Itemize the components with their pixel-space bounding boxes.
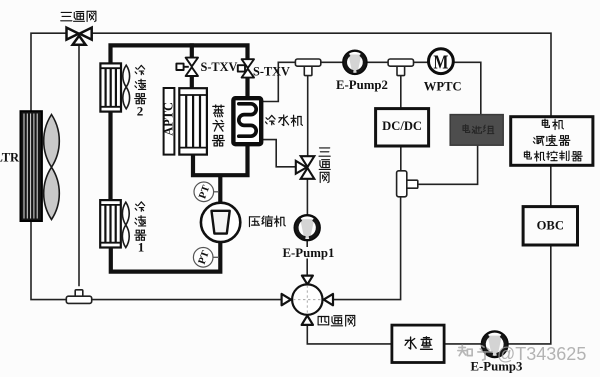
label motor box line3 [524,151,582,161]
wire OBC top to motor box bottom [550,165,552,206]
label evaporator [213,105,225,146]
wire four-way valve bottom to water tank [307,325,392,344]
label compressor [249,216,285,227]
evaporator core [179,88,207,154]
label condenser 1 [135,202,146,255]
wire chiller bottom port to three-way valve V2 left port [261,140,296,167]
label condenser 2 [135,65,146,118]
thick line S-TXV1 bottom to evaporator top [190,76,194,89]
svg-text:DC/DC: DC/DC [382,119,422,133]
svg-text:APTC: APTC [161,102,175,136]
stub PT1 to line [214,191,219,193]
wire chiller top port to E-Pump2 / WPTC line and down to battery top [261,62,481,115]
chiller heat exchanger box [233,98,261,144]
thick line S-TXV2 bottom to chiller top [245,77,249,98]
expansion valve S-TXV 1 [176,58,198,76]
label three-way valve V2 (vertical) [319,148,330,183]
fan of condenser 1 [122,202,129,247]
svg-text:1: 1 [138,240,145,255]
sensor PT 2 [193,247,213,267]
label motor box line2 [533,135,569,145]
label motor box line1 [542,119,563,129]
wire four-way valve right port up to DC/DC tee fitting [333,197,401,300]
compressor [201,203,240,242]
four-way valve right port arrow [324,294,333,305]
tee fitting bottom-left [66,290,91,304]
tee fitting T2 (above DC/DC) [388,59,413,76]
converter DC/DC box [376,109,429,146]
wire E-Pump1 bottom stub [306,240,308,247]
thick branch down to S-TXV1 [190,43,194,58]
thick line tap down to compressor top [218,175,222,203]
pump E-Pump3 [482,331,508,357]
fan of condenser 2 [123,65,130,109]
four-way valve left port arrow [282,294,291,305]
label water tank [405,337,432,350]
svg-text:S-TXV: S-TXV [201,60,238,74]
chiller coil [239,104,256,136]
wire E-Pump1 to four-way valve arrow [306,259,308,277]
svg-text:WPTC: WPTC [424,80,462,94]
wire water tank right to E-Pump3 to OBC bottom [444,245,551,344]
tee fitting T1 (on WPTC line) [295,59,320,76]
stub PT2 to line [213,256,219,258]
heater APTC box [164,88,175,155]
thick discharge line: compressor bottom down, left, up to condenser1 bottom [111,242,221,272]
label chiller [266,115,303,126]
thick suction line: evaporator bottom down, right to chiller bottom [193,144,248,175]
charger OBC box [523,207,577,245]
wire tee T2 stub down to DC/DC top [400,76,402,109]
radiator LTR [21,111,42,221]
svg-text:E-Pump1: E-Pump1 [283,246,335,260]
arrow into four-way valve top [302,276,313,285]
tee fitting vertical (below DC/DC) [397,171,418,197]
wire top main from three-way valve V1 to motor box [89,33,551,117]
svg-text:S-TXV: S-TXV [253,65,290,79]
three-way valve V1 (top left) [67,28,92,45]
svg-text:OBC: OBC [537,219,564,233]
svg-text:E-Pump2: E-Pump2 [336,78,388,92]
watermark zhihu [458,345,492,360]
label four-way valve [318,316,355,327]
wire left main: valve V1 left, down left side through LTR, to four-way valve left port [31,33,282,299]
svg-text:2: 2 [137,104,144,119]
svg-text:M: M [433,51,448,73]
label battery pack [463,125,494,134]
wire valve V2 bottom to E-Pump1 top [306,179,308,216]
pump E-Pump1 [295,215,320,240]
condenser 2 [100,63,121,111]
wire vertical tee stub right then up to battery bottom [418,145,478,184]
four-way valve body [292,284,322,314]
condenser 1 [100,200,121,247]
svg-text:LTR: LTR [0,151,20,165]
pump E-Pump2 [343,51,366,74]
battery pack box [450,115,503,146]
motor/reducer/controller box [511,117,593,166]
sensor PT 1 [194,182,214,202]
wire tee T1 stub down to valve V2 top [307,76,309,157]
expansion valve S-TXV 2 [238,59,254,77]
thick line condenser1 top to condenser2 bottom [108,112,112,200]
label three-way valve V1 [61,11,96,21]
water tank box [392,325,444,362]
fan blades of LTR (two lens shapes) [44,115,60,220]
four-way valve bottom port arrow [302,316,313,325]
heater WPTC [429,49,454,74]
three-way valve V2 [296,156,315,179]
wire from valve V1 bottom down to bottom tee fitting [78,45,80,287]
thick refrigerant line: condenser2 top up and right to S-TXV2 [111,45,248,64]
wire DC/DC bottom to vertical tee fitting [400,146,402,171]
svg-text:@T343625: @T343625 [497,344,586,364]
